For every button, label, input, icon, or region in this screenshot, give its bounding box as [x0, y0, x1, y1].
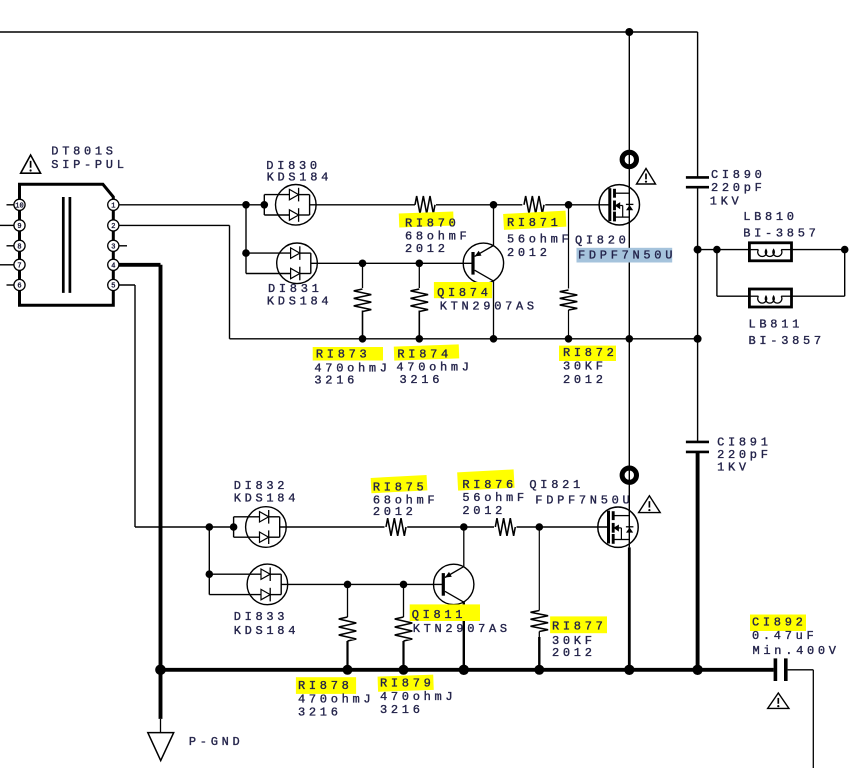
svg-text:KDS184: KDS184: [267, 295, 332, 309]
svg-text:LB810: LB810: [743, 210, 798, 224]
junction dot gate node lower: [536, 523, 544, 531]
highlight RI878: [296, 677, 356, 694]
wire pin10 stub: [7, 204, 14, 206]
wire pin1 to diode node: [119, 204, 264, 206]
svg-text:2: 2: [111, 223, 115, 231]
junction dot RI878 bottom: [343, 665, 353, 675]
svg-text:KTN2907AS: KTN2907AS: [413, 622, 511, 636]
inductor LB810: [749, 243, 791, 261]
ring connector QI820 drain: [622, 152, 636, 166]
svg-text:RI879: RI879: [380, 677, 435, 691]
resistor RI878: [347, 584, 349, 617]
svg-text:DT801S: DT801S: [51, 144, 116, 158]
svg-text:2012: 2012: [373, 505, 417, 519]
svg-text:470ohmJ: 470ohmJ: [298, 693, 374, 707]
wire top horizontal bus: [0, 31, 698, 33]
svg-text:2012: 2012: [552, 646, 596, 660]
highlight QI874: [434, 282, 492, 298]
wire ground bus thick: [161, 668, 774, 672]
svg-text:QI874: QI874: [437, 286, 492, 300]
wire pin2 right: [119, 224, 230, 226]
svg-text:3216: 3216: [400, 373, 444, 387]
svg-text:Min.400V: Min.400V: [753, 644, 840, 658]
junction dot RI873 top: [359, 260, 367, 268]
capacitor CI891: [686, 441, 709, 444]
highlight FDPF7N50U blue: [577, 248, 673, 263]
svg-text:SIP-PUL: SIP-PUL: [51, 158, 127, 172]
svg-text:RI875: RI875: [373, 481, 428, 495]
junction dot RI878 top: [344, 581, 352, 589]
svg-text:P-GND: P-GND: [189, 735, 244, 749]
svg-text:2012: 2012: [507, 246, 551, 260]
junction dot DI831 anode: [242, 249, 250, 257]
wire right vertical to CI890: [697, 32, 699, 177]
svg-text:8: 8: [17, 243, 21, 251]
transistor QI874: [463, 243, 503, 283]
highlight CI892: [750, 615, 806, 632]
transistor QI811: [434, 564, 474, 604]
svg-text:RI873: RI873: [316, 348, 371, 362]
transformer pins: [14, 199, 25, 210]
junction dot emitter node lower: [460, 523, 468, 531]
wire pin3 stub: [119, 245, 127, 247]
highlight RI877: [550, 616, 607, 633]
junction dot RI874 top: [416, 260, 424, 268]
wire LB811 branch: [716, 250, 718, 297]
wire CI890 to rail: [697, 187, 699, 442]
junction dot LB branch: [713, 246, 721, 254]
wire pin6 stub: [7, 284, 14, 286]
svg-text:30KF: 30KF: [563, 360, 607, 374]
wire LB811 right: [792, 295, 845, 297]
wire LB810 right: [792, 249, 845, 251]
junction dot QI821 source: [624, 665, 634, 675]
svg-text:QI821: QI821: [529, 478, 584, 492]
resistor RI875: [386, 518, 406, 536]
svg-text:3216: 3216: [380, 703, 424, 717]
svg-text:BI-3857: BI-3857: [743, 227, 819, 241]
junction node B DI832/DI833: [206, 523, 214, 531]
wire pin5 down: [134, 285, 136, 527]
wire main vertical drain QI820: [628, 32, 630, 339]
wire node B down to DI833: [208, 527, 210, 574]
ring connector QI821 drain: [622, 468, 636, 482]
resistor RI870: [415, 196, 435, 214]
junction dot QI874 collector: [490, 335, 498, 343]
highlight QI811: [410, 604, 480, 621]
junction dot CI891 bus: [692, 665, 702, 675]
svg-text:CI890: CI890: [711, 168, 766, 182]
junction dot LB right: [841, 246, 849, 254]
junction dot LB node: [694, 246, 702, 254]
svg-text:1: 1: [111, 202, 115, 210]
svg-text:RI872: RI872: [563, 346, 618, 360]
junction node A pin1/DI831: [242, 201, 250, 209]
wire rail mid: [230, 338, 698, 340]
svg-text:470ohmJ: 470ohmJ: [380, 690, 456, 704]
warning triangle QI820: [637, 169, 656, 185]
warning triangle QI821: [639, 496, 661, 513]
wire QI821 drain: [628, 339, 630, 548]
svg-text:CI892: CI892: [752, 616, 807, 630]
junction dot top node: [625, 28, 633, 36]
wire pin9 left: [0, 224, 14, 226]
svg-text:3216: 3216: [298, 706, 342, 720]
wire CI891 to bus thick: [696, 452, 700, 670]
junction dot rail right end: [694, 335, 702, 343]
resistor RI879: [403, 584, 405, 617]
wire node A down to DI831: [245, 205, 247, 253]
junction dot QI811 collector: [459, 665, 469, 675]
svg-text:RI876: RI876: [462, 478, 517, 492]
svg-text:10: 10: [15, 202, 23, 210]
wire pin5 right: [119, 284, 135, 286]
junction dot emitter node: [490, 201, 498, 209]
resistor RI877: [538, 527, 540, 611]
svg-text:2012: 2012: [563, 373, 607, 387]
wire pin4 thick: [119, 263, 161, 267]
junction dot RI879 top: [400, 581, 408, 589]
wire pin5 to DI832: [135, 526, 234, 528]
junction dot QI820 source rail: [626, 335, 634, 343]
highlight RI871: [503, 211, 566, 230]
highlight RI875: [371, 475, 428, 493]
capacitor CI892: [774, 658, 778, 681]
junction dot RI873 bottom: [359, 335, 367, 343]
capacitor CI890: [686, 176, 709, 179]
svg-text:1KV: 1KV: [710, 194, 743, 208]
wire QI821 source thick: [628, 547, 631, 669]
svg-text:DI833: DI833: [234, 610, 289, 624]
wire pin2 down to rail: [229, 225, 231, 338]
junction dot DI832 anode: [230, 523, 238, 531]
junction dot DI833 anode: [206, 570, 214, 578]
wire pin8 stub: [7, 245, 14, 247]
wire LB node right: [698, 249, 750, 251]
junction dot RI879 bottom: [399, 665, 409, 675]
junction dot RI872 bottom: [565, 335, 573, 343]
svg-text:LB811: LB811: [749, 317, 804, 331]
mosfet QI821: [598, 507, 638, 547]
junction dot DI830 anode: [261, 201, 269, 209]
svg-text:BI-3857: BI-3857: [749, 334, 825, 348]
svg-text:QI820: QI820: [575, 234, 630, 248]
svg-text:RI870: RI870: [405, 216, 460, 230]
diode DI831: [245, 253, 247, 273]
junction dot gate node: [565, 201, 573, 209]
svg-text:56ohmF: 56ohmF: [507, 232, 572, 246]
svg-text:KTN2907AS: KTN2907AS: [440, 300, 538, 314]
svg-text:3216: 3216: [314, 374, 358, 388]
wire RI875 to node: [407, 526, 494, 528]
highlight RI876: [457, 469, 514, 490]
svg-text:9: 9: [17, 223, 21, 231]
junction dot bus pin4: [155, 665, 166, 676]
transformer core: [62, 197, 65, 293]
svg-text:220pF: 220pF: [711, 181, 766, 195]
inductor LB811: [749, 289, 791, 307]
svg-text:KDS184: KDS184: [234, 492, 299, 506]
junction dot RI877 bottom: [534, 665, 544, 675]
wire RI876 to gate: [517, 526, 609, 528]
diode DI832: [233, 517, 235, 537]
svg-text:6: 6: [17, 283, 21, 291]
highlight RI879: [378, 675, 434, 692]
resistor RI873: [362, 263, 364, 288]
svg-text:FDPF7N50U: FDPF7N50U: [535, 493, 633, 507]
svg-text:56ohmF: 56ohmF: [462, 491, 527, 505]
svg-text:5: 5: [111, 283, 115, 291]
ground P-GND: [160, 719, 162, 733]
svg-text:KDS184: KDS184: [267, 171, 332, 185]
warning triangle CI892: [768, 693, 789, 708]
diode DI833: [208, 574, 210, 594]
resistor RI871: [524, 196, 544, 214]
highlight RI873: [313, 347, 383, 361]
svg-text:7: 7: [17, 262, 21, 270]
svg-text:FDPF7N50U: FDPF7N50U: [578, 248, 676, 262]
svg-text:KDS184: KDS184: [234, 624, 299, 638]
svg-text:QI811: QI811: [412, 608, 467, 622]
svg-text:4: 4: [111, 262, 115, 270]
highlight RI874: [394, 344, 459, 360]
resistor RI874: [418, 263, 420, 288]
transformer DT801S body: [20, 184, 114, 305]
svg-text:RI871: RI871: [507, 216, 562, 230]
svg-text:2012: 2012: [405, 242, 449, 256]
resistor RI872: [568, 205, 570, 289]
junction dot RI874 bottom: [416, 335, 424, 343]
warning triangle transformer: [21, 155, 41, 173]
svg-text:1KV: 1KV: [717, 461, 750, 475]
svg-text:RI878: RI878: [298, 679, 353, 693]
svg-text:2012: 2012: [462, 504, 506, 518]
svg-text:RI877: RI877: [552, 620, 607, 634]
wire RI870 to node: [436, 204, 522, 206]
highlight RI872: [559, 346, 616, 361]
mosfet QI820: [599, 185, 639, 225]
svg-text:3: 3: [111, 243, 115, 251]
wire pin7 left: [0, 264, 14, 266]
resistor RI876: [495, 518, 515, 536]
highlight RI870: [399, 212, 454, 228]
wire CI892 right: [788, 669, 814, 671]
wire RI871 to gate: [545, 204, 610, 206]
svg-text:0.47uF: 0.47uF: [752, 629, 817, 643]
diode DI830: [263, 195, 265, 215]
